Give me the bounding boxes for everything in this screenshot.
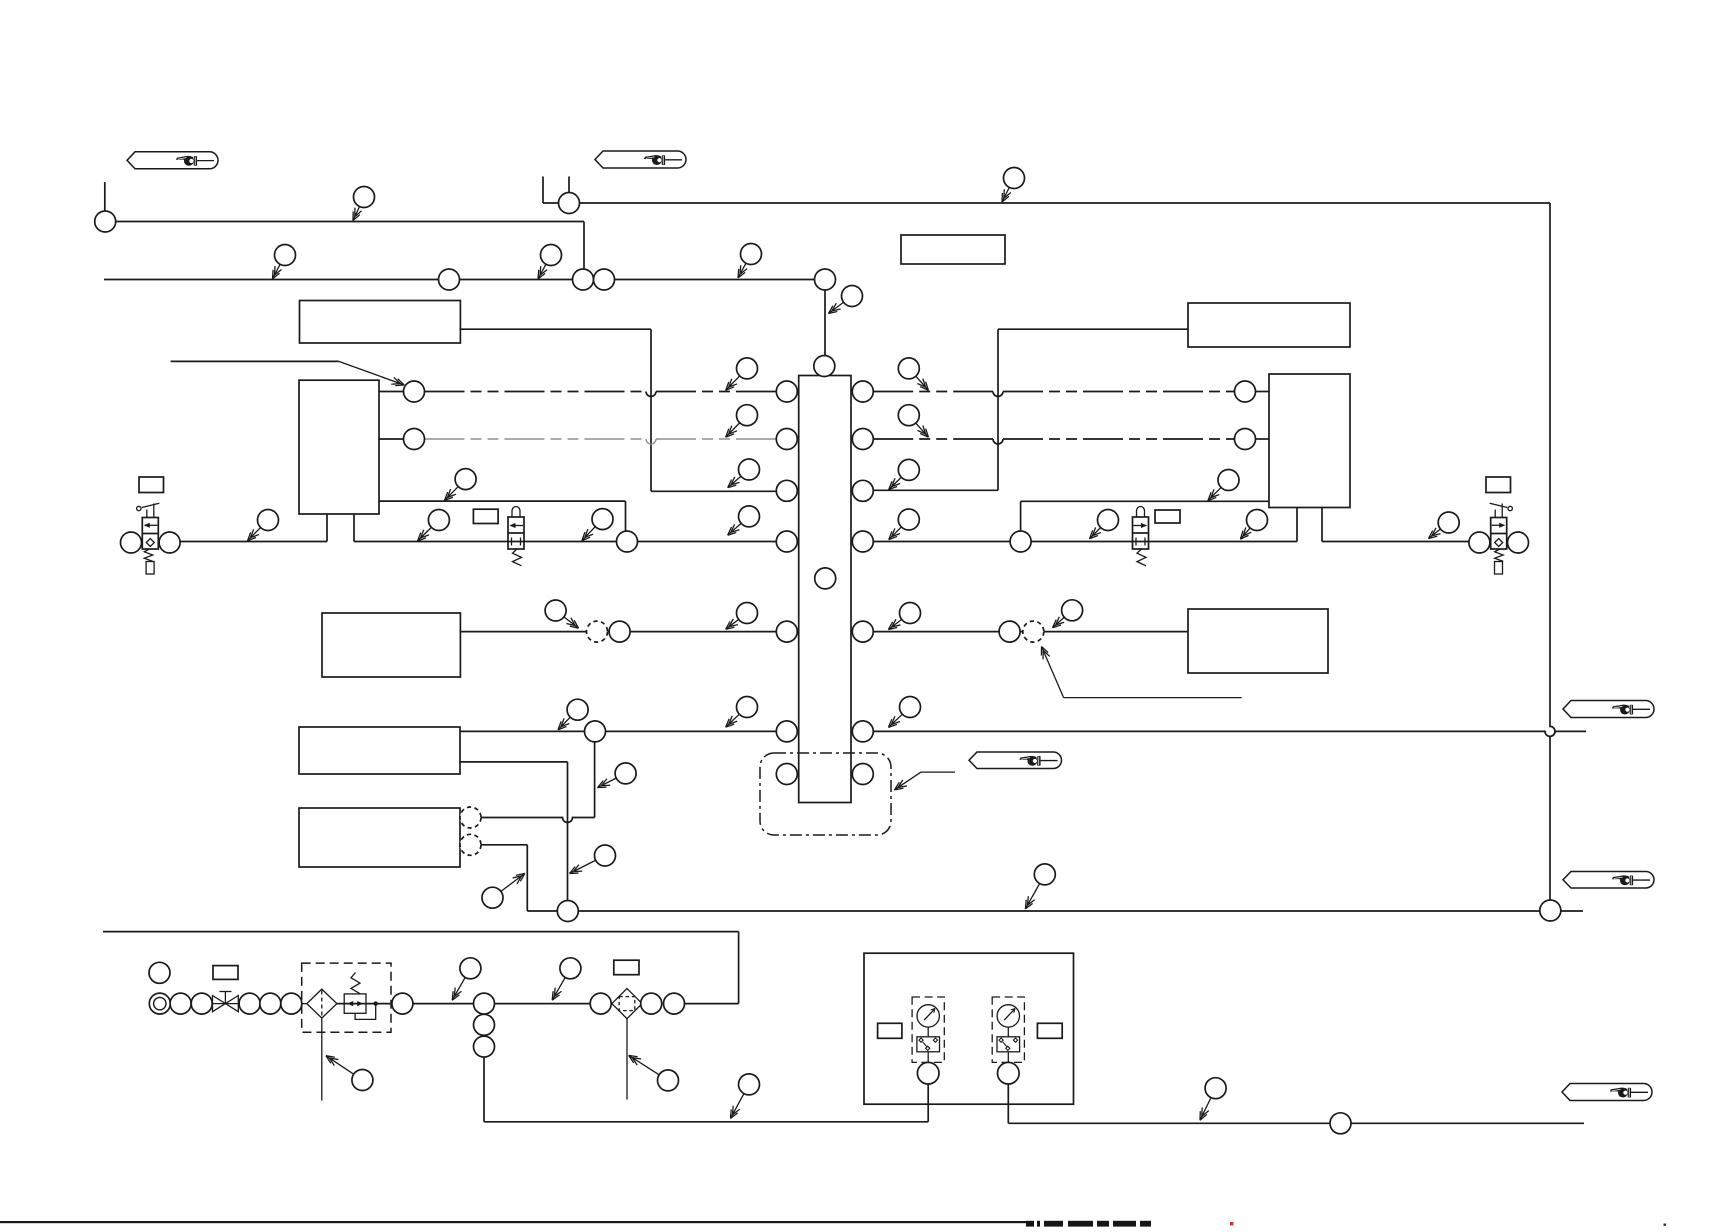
wire dashed balloon lower: [481, 844, 527, 846]
line3 right wire: [873, 541, 1297, 543]
junction balloon row F: [585, 721, 606, 742]
balloon before filter2: [590, 993, 611, 1014]
callout row C right: [889, 477, 902, 489]
gauge panel box: [864, 953, 1074, 1104]
pressure gauge + switch right: [992, 997, 1024, 1062]
callout row E right: [888, 619, 901, 629]
label box shutoff: [213, 966, 238, 980]
right border wire: [1550, 203, 1555, 900]
row E right wire: [873, 631, 1188, 633]
row E left wire: [460, 631, 776, 633]
callout near right hand valve: [1429, 529, 1441, 538]
balloon line5 left: [557, 901, 578, 922]
callout on line3 right: [1240, 528, 1250, 539]
stacked balloon 2: [474, 1014, 495, 1035]
callout on branch wire: [731, 1094, 744, 1119]
callout left of lockout right: [1090, 527, 1101, 538]
lockout valve left: [508, 517, 524, 549]
row C right wire: [873, 489, 998, 491]
row B phantom line left: [425, 438, 647, 440]
balloon after filter2 b: [664, 993, 685, 1014]
shutoff valve: [213, 996, 239, 1012]
source pin 1: [542, 177, 544, 204]
line3 wire to right valve: [1322, 541, 1469, 543]
right valve block: [1269, 374, 1350, 508]
callout row D left: [728, 523, 741, 535]
main air wire 2: [337, 1003, 474, 1005]
balloon on line2: [439, 269, 460, 290]
callout on line1b: [1002, 187, 1009, 202]
branch wire down: [483, 1057, 485, 1122]
callout filter1 drain: [326, 1056, 354, 1074]
callout row B left: [726, 423, 740, 437]
callout row F left: [726, 714, 740, 727]
callout filter2 drain: [629, 1055, 659, 1074]
pointer flag 3 (right): [1563, 701, 1654, 718]
balloon after regulator: [392, 993, 413, 1014]
callout on line2 mid: [538, 264, 546, 279]
callout row F right: [888, 714, 902, 727]
stacked balloon 3: [474, 1036, 495, 1057]
callout on outlet wire: [1200, 1098, 1211, 1121]
row A phantom line right: [873, 391, 993, 393]
wire line1b: [543, 202, 1550, 204]
feed drop left x651: [650, 329, 652, 491]
dashed balloon row E right: [1023, 621, 1044, 642]
right block bottom stub A: [1296, 508, 1298, 542]
regulator: [344, 994, 366, 1013]
source pin 2: [568, 177, 570, 193]
separator drop wire: [738, 932, 740, 1004]
bottom outlet wire: [1008, 1122, 1584, 1124]
wire from top-left box: [460, 328, 651, 330]
callout row E left wire: [564, 617, 579, 628]
callout on line3 left: [418, 527, 432, 541]
row A phantom line left: [425, 391, 647, 393]
manifold body: [799, 376, 851, 803]
row A right balloon: [1235, 381, 1256, 402]
dashed balloon box3 upper: [460, 807, 481, 828]
label box lockout right: [1155, 510, 1180, 523]
wire from top-right box: [998, 328, 1188, 330]
filter 1: [307, 989, 337, 1018]
supply stub: [104, 182, 106, 211]
balloon on outlet wire: [1330, 1113, 1351, 1134]
hand valve left edge: [121, 532, 142, 553]
balloon chain 1: [170, 993, 191, 1014]
end balloon line2: [815, 269, 836, 290]
filter 2: [612, 989, 642, 1019]
callout row A right: [916, 376, 929, 390]
line3 left wire: [180, 541, 327, 543]
label box top-left: [300, 301, 461, 344]
balloon row E right: [999, 621, 1020, 642]
filter-regulator dashed box: [302, 963, 391, 1032]
wire line2: [104, 279, 825, 281]
callout on line2 left: [273, 264, 281, 279]
balloon line5 right: [1540, 900, 1561, 921]
row F left wire: [460, 730, 776, 732]
pointer flag 2 (top middle): [595, 151, 686, 168]
label box gauge right: [1037, 1023, 1062, 1038]
callout on right block port wire: [1208, 487, 1221, 500]
row A stub from block: [379, 391, 404, 393]
row F right wire: [873, 731, 1586, 736]
lockout valve right: [1133, 517, 1149, 549]
right block bottom stub B: [1321, 508, 1323, 542]
label box mid-left 2: [299, 727, 460, 774]
label box lockout left: [473, 509, 498, 523]
manifold right port F: [852, 721, 873, 742]
balloon chain 2: [191, 993, 212, 1014]
callout row C left: [728, 476, 741, 487]
manifold left port D: [776, 531, 797, 552]
row B right balloon: [1235, 429, 1256, 450]
dashed balloon box3 lower: [460, 834, 481, 855]
label box top-right: [1188, 303, 1350, 347]
filter 2 drain: [626, 1019, 628, 1100]
line5 wire: [527, 910, 1583, 912]
callout on air wire 2: [552, 977, 565, 1000]
port balloon line1a: [95, 211, 116, 232]
branch wire bottom: [484, 1121, 928, 1123]
main air wire 3: [495, 1003, 591, 1005]
callout on drop wire: [829, 302, 844, 313]
row B stub to right block: [1256, 438, 1270, 440]
callout row D right: [889, 527, 902, 540]
label box mid-left 1: [322, 613, 460, 677]
callout on riser x567: [570, 860, 596, 873]
row B port balloon: [404, 429, 425, 450]
manifold right port E: [852, 621, 873, 642]
balloon no-arrow: [149, 962, 170, 983]
callout row E right wire: [1053, 617, 1065, 628]
balloon row E left: [609, 621, 630, 642]
row A port balloon: [404, 381, 425, 402]
stacked balloon 1: [474, 993, 495, 1014]
wire dashed balloon to riser: [481, 818, 595, 823]
callout on line5: [1025, 884, 1039, 909]
callout on line2 right: [738, 263, 746, 278]
balloon chain 4: [260, 993, 281, 1014]
callout near hand valve: [248, 527, 261, 540]
left block bottom stub B: [353, 514, 355, 542]
row B phantom line right: [873, 438, 993, 440]
manifold left port G: [776, 764, 797, 785]
manifold left port A: [776, 381, 797, 402]
left valve block: [299, 380, 379, 514]
callout on riser x595: [598, 778, 617, 787]
manifold right port C: [852, 480, 873, 501]
manifold left port C: [776, 480, 797, 501]
callout row E left: [726, 619, 739, 629]
row B stub from block: [379, 438, 404, 440]
pointer flag 6 (bottom right): [1562, 1084, 1652, 1101]
twin balloon B on line2: [594, 269, 615, 290]
main air wire 4: [685, 1003, 739, 1005]
main air wire 1: [169, 1003, 307, 1005]
manifold left port F: [776, 721, 797, 742]
gauge right outlet wire: [1007, 1084, 1009, 1123]
junction balloon line1b: [559, 193, 580, 214]
manifold right port B: [852, 429, 873, 450]
callout row A left: [726, 376, 740, 390]
label box mid-right: [1188, 609, 1328, 673]
filter 1 drain: [321, 1018, 323, 1101]
label box filter2: [614, 960, 639, 975]
leader from dashed balloon: [1042, 647, 1064, 698]
pointer flag 4 (center): [969, 752, 1062, 769]
manifold left port E: [776, 621, 797, 642]
junction balloon line3 right: [1010, 531, 1031, 552]
label box gauge left: [878, 1023, 902, 1038]
wire line1a: [116, 221, 584, 223]
row C left wire: [651, 490, 776, 492]
balloon on manifold top: [814, 356, 835, 377]
manifold right port D: [852, 531, 873, 552]
manifold right port A: [852, 381, 873, 402]
twin balloon A on line2: [573, 269, 594, 290]
callout row F box wire: [558, 717, 570, 730]
junction balloon line3 left: [617, 531, 638, 552]
balloon chain 5: [281, 993, 302, 1014]
drop wire to manifold: [824, 290, 826, 356]
label box left valve: [139, 477, 164, 493]
balloon after filter2 a: [641, 993, 662, 1014]
wire line1a drop: [583, 222, 585, 270]
callout on line1a: [353, 207, 360, 221]
manifold left port B: [776, 429, 797, 450]
feed drop right x998: [997, 329, 999, 490]
pointer flag 5 (right): [1563, 872, 1654, 889]
hand valve right edge: [1469, 532, 1490, 553]
left block bottom stub A: [326, 514, 328, 542]
air source balloon: [149, 993, 170, 1014]
balloon chain 3: [239, 993, 260, 1014]
line3 wire to manifold: [354, 541, 776, 543]
dashed enclosure: [760, 753, 891, 835]
separator wire: [103, 931, 739, 933]
right block port wire: [1020, 501, 1022, 531]
gauge left feed wire: [927, 1084, 929, 1122]
callout right of lockout valve: [582, 527, 595, 541]
leader line to left block: [171, 360, 339, 362]
callout on riser x527: [501, 873, 525, 891]
balloon inside manifold: [815, 568, 836, 589]
cut-off footer text: [0, 1221, 1026, 1223]
callout on left block port wire: [445, 487, 459, 501]
box2 lower port wire: [460, 761, 568, 763]
dashed balloon row E left: [587, 621, 608, 642]
pressure gauge + switch left: [912, 997, 944, 1062]
label box top-center: [901, 235, 1005, 264]
left block port wire: [379, 500, 626, 502]
label box mid-left 3: [299, 808, 460, 867]
leader to dashed enclosure: [921, 771, 955, 773]
pointer flag 1 (top left): [127, 152, 218, 169]
label box right valve: [1486, 477, 1511, 493]
callout on air wire: [452, 977, 465, 1000]
manifold right port G: [852, 764, 873, 785]
row A stub to right block: [1256, 391, 1270, 393]
callout row B right: [916, 423, 929, 437]
